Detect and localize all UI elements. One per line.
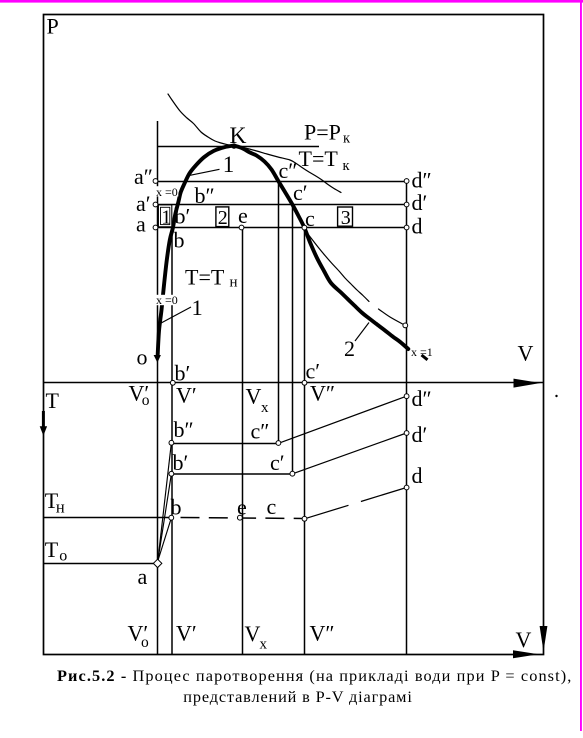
svg-text:н: н [56,498,65,517]
svg-text:V″: V″ [310,381,335,406]
svg-text:o: o [137,345,148,370]
svg-text:a″: a″ [134,164,153,189]
svg-text:a: a [136,212,146,237]
svg-text:T: T [45,537,59,562]
svg-text:н: н [230,274,238,290]
svg-text:T=T: T=T [299,146,339,171]
svg-text:x =0: x =0 [156,185,178,199]
svg-text:V: V [518,341,534,366]
svg-text:d: d [412,463,423,488]
svg-text:x =0: x =0 [156,293,178,307]
svg-text:1: 1 [192,295,203,320]
svg-text:3: 3 [341,207,351,229]
svg-text:K: K [230,123,247,149]
svg-text:представлений в P-V діаграмі: представлений в P-V діаграмі [183,687,412,706]
svg-text:b″: b″ [195,183,215,208]
svg-text:e: e [237,495,247,520]
svg-text:c: c [267,494,277,519]
svg-text:V: V [516,627,532,652]
svg-text:d′: d′ [412,422,428,447]
svg-text:о: о [142,392,150,409]
svg-text:Рис.5.2 - Процес паротворення: Рис.5.2 - Процес паротворення (на прикла… [57,666,572,685]
svg-text:о: о [59,548,67,565]
svg-text:P=P: P=P [304,120,341,145]
svg-text:T=T: T=T [185,265,225,290]
svg-text:d: d [412,214,423,239]
svg-text:d″: d″ [412,168,432,193]
svg-text:2: 2 [218,207,228,229]
svg-text:P: P [47,14,59,39]
svg-text:V″: V″ [310,621,335,646]
svg-text:T: T [46,388,60,413]
svg-text:к: к [343,130,351,146]
svg-text:2: 2 [344,336,355,361]
svg-text:b: b [174,228,185,253]
svg-text:e: e [238,203,248,228]
svg-text:V′: V′ [176,621,197,646]
svg-text:о: о [141,634,149,651]
svg-text:d′: d′ [412,190,428,215]
svg-text:x: x [260,637,268,653]
svg-text:V′: V′ [176,383,197,408]
svg-text:c″: c″ [251,419,270,444]
svg-text:d″: d″ [412,386,432,411]
svg-text:a: a [138,564,148,589]
svg-text:x =1: x =1 [411,345,433,359]
svg-text:c′: c′ [293,180,308,205]
svg-text:b: b [171,495,182,520]
svg-text:b′: b′ [175,204,191,229]
svg-text:b″: b″ [174,417,194,442]
svg-text:b′: b′ [173,450,189,475]
svg-text:V: V [245,621,261,646]
svg-text:c′: c′ [270,450,285,475]
svg-text:1: 1 [161,207,171,229]
svg-text:x: x [261,400,269,416]
svg-text:c: c [305,206,315,231]
svg-text:к: к [343,158,351,174]
svg-text:V: V [246,384,262,409]
svg-text:1: 1 [223,152,235,177]
svg-text:c″: c″ [279,158,298,183]
